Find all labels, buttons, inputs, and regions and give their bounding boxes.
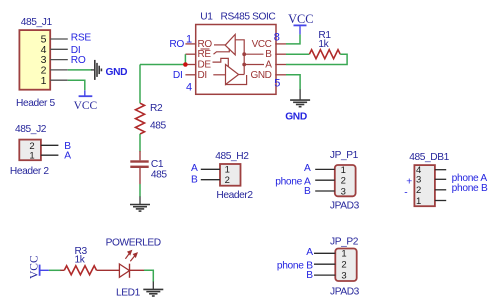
svg-text:485: 485 <box>151 170 168 181</box>
svg-text:RS485 SOIC: RS485 SOIC <box>221 11 276 22</box>
svg-text:POWERLED: POWERLED <box>106 238 161 249</box>
svg-text:DI: DI <box>173 70 183 81</box>
svg-text:JP_P2: JP_P2 <box>330 237 359 248</box>
svg-text:LED1: LED1 <box>116 288 141 299</box>
svg-text:JPAD3: JPAD3 <box>330 201 360 212</box>
svg-text:A: A <box>191 163 198 174</box>
svg-text:5: 5 <box>274 78 280 90</box>
svg-text:U1: U1 <box>200 11 213 22</box>
svg-text:GND: GND <box>285 111 307 122</box>
svg-text:1: 1 <box>41 75 47 87</box>
svg-text:1: 1 <box>186 34 192 46</box>
svg-text:phone B: phone B <box>452 183 488 194</box>
svg-text:1k: 1k <box>75 255 86 266</box>
svg-text:485: 485 <box>150 121 167 132</box>
svg-text:A: A <box>306 247 313 258</box>
svg-text:B: B <box>304 186 311 197</box>
svg-text:3: 3 <box>341 186 346 197</box>
svg-text:+: + <box>406 176 412 187</box>
svg-text:485_J1: 485_J1 <box>21 17 53 28</box>
svg-text:2: 2 <box>225 175 230 186</box>
svg-text:GND: GND <box>250 70 271 81</box>
svg-text:DI: DI <box>198 70 207 81</box>
svg-text:1: 1 <box>341 249 346 260</box>
svg-text:A: A <box>64 151 71 162</box>
svg-text:C1: C1 <box>151 159 164 170</box>
svg-text:Header 2: Header 2 <box>10 166 49 177</box>
svg-text:3: 3 <box>341 271 346 282</box>
svg-text:4: 4 <box>186 81 192 93</box>
svg-text:485_DB1: 485_DB1 <box>409 152 449 163</box>
svg-text:3: 3 <box>416 175 421 186</box>
svg-text:R2: R2 <box>150 103 163 114</box>
svg-text:485_H2: 485_H2 <box>215 151 249 162</box>
svg-text:1: 1 <box>341 165 346 176</box>
svg-text:Header2: Header2 <box>216 190 253 201</box>
svg-text:Header 5: Header 5 <box>16 98 55 109</box>
svg-text:1: 1 <box>29 151 34 162</box>
svg-text:B: B <box>306 270 313 281</box>
svg-text:B: B <box>191 175 198 186</box>
svg-text:RO: RO <box>169 39 184 50</box>
svg-text:1: 1 <box>416 196 421 207</box>
svg-text:RO: RO <box>71 55 86 66</box>
svg-text:1k: 1k <box>318 39 329 50</box>
svg-text:-: - <box>404 188 407 199</box>
svg-text:RSE: RSE <box>71 33 92 44</box>
svg-text:1: 1 <box>225 165 230 176</box>
svg-text:JPAD3: JPAD3 <box>330 287 360 298</box>
svg-text:A: A <box>304 163 311 174</box>
svg-text:VCC: VCC <box>288 12 313 26</box>
svg-text:JP_P1: JP_P1 <box>330 150 359 161</box>
svg-text:2: 2 <box>416 185 421 196</box>
svg-text:2: 2 <box>341 176 346 187</box>
svg-text:8: 8 <box>274 31 280 43</box>
svg-text:GND: GND <box>106 67 128 78</box>
svg-text:VCC: VCC <box>74 100 98 112</box>
svg-text:485_J2: 485_J2 <box>15 124 47 135</box>
svg-text:2: 2 <box>341 260 346 271</box>
